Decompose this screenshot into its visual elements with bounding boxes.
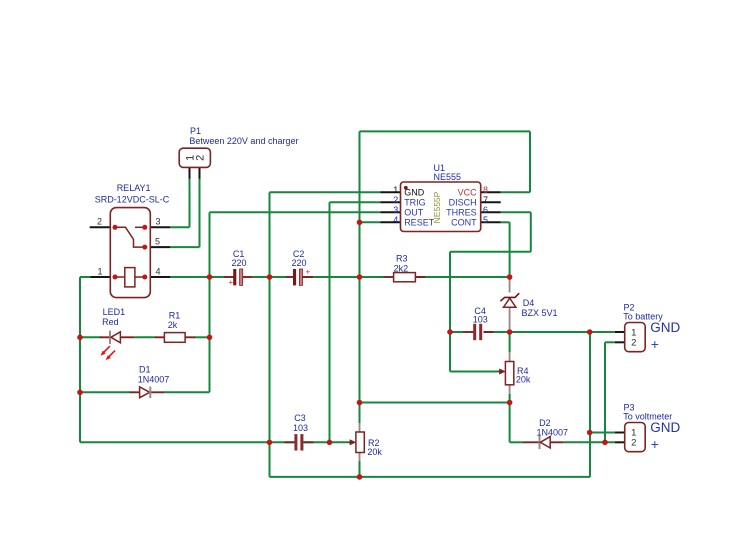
svg-text:8: 8	[483, 185, 488, 195]
svg-text:GND: GND	[650, 320, 680, 335]
svg-text:TRIG: TRIG	[404, 197, 426, 207]
svg-text:VCC: VCC	[458, 187, 478, 197]
svg-text:Red: Red	[102, 317, 119, 327]
svg-text:D1: D1	[139, 365, 151, 375]
svg-text:220: 220	[232, 258, 247, 268]
svg-text:OUT: OUT	[404, 207, 424, 217]
svg-text:RESET: RESET	[404, 217, 435, 227]
svg-text:+: +	[228, 278, 233, 287]
svg-text:D4: D4	[523, 298, 535, 308]
svg-text:5: 5	[155, 236, 160, 246]
svg-text:1: 1	[97, 266, 102, 276]
svg-text:3: 3	[155, 217, 160, 227]
svg-text:5: 5	[483, 215, 488, 225]
svg-text:2: 2	[97, 217, 102, 227]
svg-text:RELAY1: RELAY1	[117, 183, 151, 193]
svg-text:6: 6	[483, 205, 488, 215]
svg-text:C3: C3	[294, 413, 306, 423]
svg-text:1: 1	[393, 185, 398, 195]
svg-text:1N4007: 1N4007	[138, 375, 170, 385]
svg-text:GND: GND	[650, 420, 680, 435]
svg-text:DISCH: DISCH	[449, 197, 477, 207]
svg-text:2k2: 2k2	[394, 263, 409, 273]
svg-text:CONT: CONT	[451, 217, 477, 227]
svg-text:P1: P1	[190, 126, 201, 136]
svg-text:2k: 2k	[168, 320, 178, 330]
svg-text:20k: 20k	[516, 375, 531, 385]
svg-text:NE555: NE555	[434, 172, 462, 182]
svg-text:BZX 5V1: BZX 5V1	[522, 308, 558, 318]
svg-text:+: +	[651, 436, 659, 452]
svg-text:20k: 20k	[367, 447, 382, 457]
svg-text:103: 103	[473, 315, 488, 325]
svg-text:4: 4	[155, 266, 160, 276]
svg-text:GND: GND	[404, 187, 425, 197]
svg-text:THRES: THRES	[446, 207, 477, 217]
svg-text:2: 2	[631, 338, 636, 349]
svg-text:NE555P: NE555P	[432, 191, 442, 223]
svg-text:+: +	[305, 267, 310, 276]
svg-text:4: 4	[393, 215, 398, 225]
svg-text:2: 2	[194, 155, 206, 161]
svg-text:R1: R1	[169, 310, 181, 320]
svg-text:7: 7	[483, 195, 488, 205]
svg-text:SRD-12VDC-SL-C: SRD-12VDC-SL-C	[95, 195, 170, 205]
svg-text:LED1: LED1	[103, 307, 126, 317]
svg-text:R3: R3	[396, 254, 408, 264]
svg-text:3: 3	[393, 205, 398, 215]
svg-text:1N4007: 1N4007	[537, 427, 569, 437]
svg-text:+: +	[651, 336, 659, 352]
svg-text:220: 220	[292, 258, 307, 268]
svg-text:2: 2	[631, 438, 636, 449]
svg-text:2: 2	[393, 195, 398, 205]
svg-text:Between 220V and charger: Between 220V and charger	[189, 136, 298, 146]
svg-text:103: 103	[293, 423, 308, 433]
